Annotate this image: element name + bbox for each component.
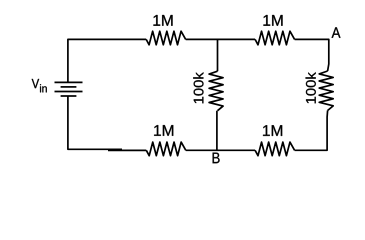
battery V1 plate short bottom [61, 95, 77, 97]
resistor R1 1M top-left [146, 31, 186, 45]
label 100k right rotated [306, 72, 316, 103]
wire top left [68, 39, 146, 82]
wire middle resistor to node B [216, 111, 218, 151]
label 1M top-left [153, 15, 172, 26]
wire junction top to middle resistor [217, 39, 219, 71]
wire bottom left [68, 96, 122, 149]
resistor R3 1M bottom-left [146, 142, 186, 156]
label 100k middle rotated [193, 72, 203, 103]
resistor R2 1M top-right [255, 31, 295, 45]
resistor R5 100k middle vertical [209, 71, 223, 111]
wire top middle [186, 38, 255, 40]
battery V1 plate long top [55, 81, 83, 83]
wire bottom middle [186, 149, 255, 151]
battery V1 plate short upper [61, 86, 77, 88]
wire right bottom [295, 111, 328, 151]
wire top right to node A [295, 39, 329, 71]
source label V [32, 79, 39, 88]
battery V1 plate long lower [55, 91, 83, 93]
node B label [213, 153, 220, 164]
node A label [332, 27, 341, 37]
label 1M top-right [263, 15, 282, 26]
label 1M bottom-left [154, 125, 173, 136]
resistor R6 100k right vertical [319, 71, 333, 111]
label 1M bottom-right [263, 125, 282, 136]
source label in subscript [40, 84, 47, 92]
resistor R4 1M bottom-right [255, 142, 295, 156]
wire bottom overlap segment [108, 149, 146, 151]
